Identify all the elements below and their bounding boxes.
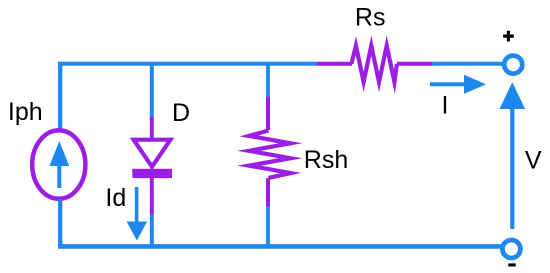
terminal - circle [502,240,520,258]
shunt branch: purple lead top [266,97,270,130]
diode branch: purple lead top [150,117,154,139]
shunt branch: blue wire bottom [266,207,270,249]
resistor Rs lead left [317,62,352,66]
wire: bottom rail [58,244,502,249]
wire: top rail left blue segment [58,62,318,66]
diode D triangle [134,140,171,167]
current arrow Id (down) [127,187,148,241]
wire: top rail right blue segment [432,62,503,66]
shunt branch: blue wire top [266,62,270,98]
diode branch: purple lead bottom [150,178,154,215]
shunt branch: purple lead bottom [266,178,270,207]
plus sign [503,31,514,42]
terminal + circle [504,56,522,74]
minus sign [508,263,515,266]
svg-text:Id: Id [105,184,126,212]
svg-text:V: V [525,146,542,174]
resistor Rsh zigzag [249,131,291,178]
diode D cathode bar [132,169,172,178]
wire: left vertical upper [58,62,62,129]
svg-text:Rsh: Rsh [304,146,348,174]
current source arrow (up) [49,141,69,188]
resistor Rs zigzag [352,46,397,82]
wire: left vertical lower [58,199,62,248]
diode branch: blue wire top [150,62,154,119]
svg-text:I: I [442,91,449,119]
current source Iph circle [32,130,85,198]
svg-text:Rs: Rs [355,4,386,32]
svg-text:Iph: Iph [8,98,43,126]
current arrow I (right) [430,75,486,94]
diode branch: blue wire bottom [150,215,154,248]
svg-text:D: D [172,99,190,127]
voltage arrow V (up) [499,82,525,229]
resistor Rs lead right [397,62,432,66]
